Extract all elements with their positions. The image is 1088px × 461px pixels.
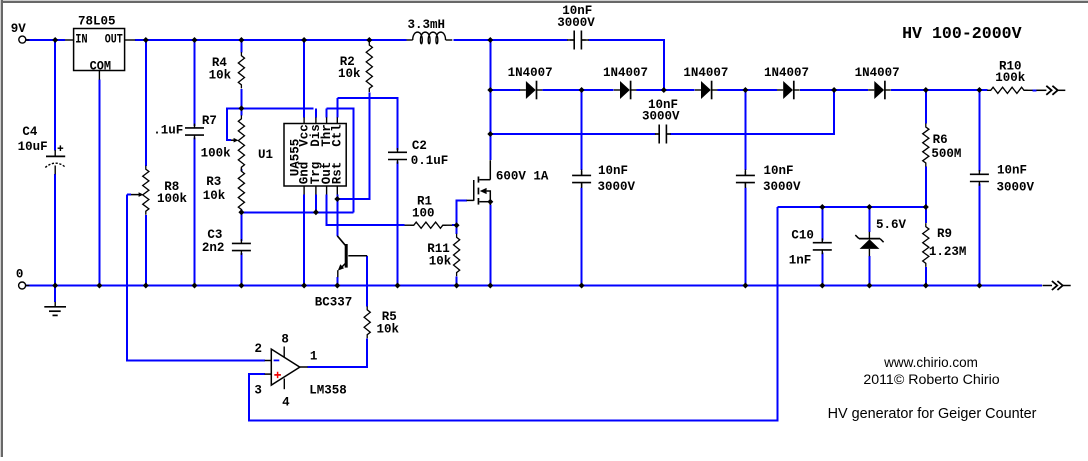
- svg-text:0.1uF: 0.1uF: [411, 154, 449, 168]
- svg-text:9V: 9V: [11, 22, 27, 36]
- svg-text:HV generator for Geiger Counte: HV generator for Geiger Counter: [828, 406, 1037, 422]
- svg-text:4: 4: [282, 396, 290, 410]
- svg-text:100: 100: [412, 207, 435, 221]
- svg-text:78L05: 78L05: [78, 14, 116, 28]
- svg-text:C3: C3: [207, 228, 222, 242]
- svg-text:2n2: 2n2: [202, 241, 225, 255]
- svg-text:IN: IN: [75, 33, 88, 47]
- svg-text:100k: 100k: [995, 71, 1026, 85]
- svg-text:Ctl: Ctl: [331, 124, 345, 147]
- svg-text:1: 1: [310, 350, 318, 364]
- svg-text:C10: C10: [791, 229, 814, 243]
- svg-text:R9: R9: [937, 227, 952, 241]
- svg-text:1N4007: 1N4007: [508, 66, 553, 80]
- svg-text:10k: 10k: [338, 67, 361, 81]
- svg-text:600V 1A: 600V 1A: [496, 169, 549, 183]
- svg-text:10nF: 10nF: [598, 164, 628, 178]
- svg-text:U1: U1: [258, 148, 273, 162]
- svg-text:2011© Roberto Chirio: 2011© Roberto Chirio: [863, 372, 999, 388]
- svg-text:C2: C2: [412, 139, 427, 153]
- svg-text:0: 0: [16, 267, 24, 281]
- svg-text:.1uF: .1uF: [153, 124, 183, 138]
- svg-text:C4: C4: [22, 125, 38, 139]
- svg-text:10nF: 10nF: [997, 163, 1027, 177]
- svg-text:LM358: LM358: [309, 384, 347, 398]
- svg-text:10k: 10k: [377, 322, 400, 336]
- svg-text:BC337: BC337: [315, 296, 353, 310]
- svg-text:10k: 10k: [209, 69, 232, 83]
- svg-text:Rst: Rst: [331, 162, 345, 185]
- svg-text:R3: R3: [206, 175, 221, 189]
- svg-text:R6: R6: [933, 133, 948, 147]
- svg-text:3000V: 3000V: [557, 16, 595, 30]
- svg-text:5.6V: 5.6V: [876, 218, 907, 232]
- svg-text:10nF: 10nF: [764, 164, 794, 178]
- svg-text:HV 100-2000V: HV 100-2000V: [902, 24, 1022, 43]
- svg-text:3.3mH: 3.3mH: [408, 18, 446, 32]
- svg-text:1N4007: 1N4007: [683, 66, 728, 80]
- svg-text:www.chirio.com: www.chirio.com: [883, 355, 978, 370]
- svg-text:3000V: 3000V: [763, 180, 801, 194]
- svg-text:10k: 10k: [203, 189, 226, 203]
- svg-text:8: 8: [281, 333, 289, 347]
- svg-text:R7: R7: [202, 114, 217, 128]
- svg-text:1N4007: 1N4007: [603, 66, 648, 80]
- svg-text:100k: 100k: [157, 192, 188, 206]
- svg-text:10uF: 10uF: [18, 140, 48, 154]
- svg-text:3000V: 3000V: [642, 109, 680, 123]
- svg-text:3: 3: [254, 384, 262, 398]
- svg-text:1N4007: 1N4007: [855, 66, 900, 80]
- svg-text:100k: 100k: [201, 147, 232, 161]
- svg-text:3000V: 3000V: [598, 180, 636, 194]
- svg-text:1N4007: 1N4007: [764, 66, 809, 80]
- svg-text:2: 2: [255, 342, 263, 356]
- svg-text:1nF: 1nF: [789, 254, 812, 268]
- svg-text:OUT: OUT: [105, 33, 123, 47]
- svg-text:COM: COM: [90, 60, 112, 74]
- svg-text:1.23M: 1.23M: [929, 245, 967, 259]
- svg-text:3000V: 3000V: [997, 180, 1035, 194]
- svg-text:500M: 500M: [931, 147, 961, 161]
- svg-text:10k: 10k: [429, 255, 452, 269]
